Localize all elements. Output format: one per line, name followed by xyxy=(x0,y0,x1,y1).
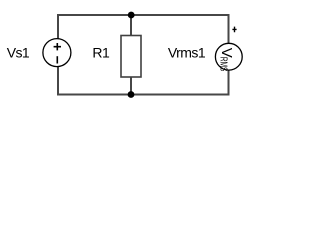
voltmeter Vrms1 xyxy=(215,27,242,72)
svg-text:Vrms1: Vrms1 xyxy=(168,44,206,60)
wire left vertical lower (Vs1 bottom lead) xyxy=(57,67,59,96)
wire middle vertical upper (R1 top lead) xyxy=(130,14,132,36)
wire right vertical lower (Vrms1 bottom lead) xyxy=(228,70,230,95)
wire right vertical upper (Vrms1 top lead) xyxy=(228,14,230,43)
wire left vertical upper (Vs1 top lead) xyxy=(57,14,59,39)
wire top rail xyxy=(57,14,230,16)
junction top node xyxy=(128,12,135,19)
svg-text:RMS: RMS xyxy=(217,57,228,72)
svg-text:Vs1: Vs1 xyxy=(7,44,30,60)
resistor R1 xyxy=(121,36,141,78)
wire bottom rail xyxy=(57,94,230,96)
voltage source Vs1 xyxy=(43,39,71,67)
label Vrms1 xyxy=(168,44,206,60)
junction bottom node xyxy=(128,91,135,98)
label Vs1 xyxy=(7,44,30,60)
svg-text:R1: R1 xyxy=(92,44,110,60)
wire middle vertical lower (R1 bottom lead) xyxy=(130,77,132,96)
label R1 xyxy=(92,44,110,60)
